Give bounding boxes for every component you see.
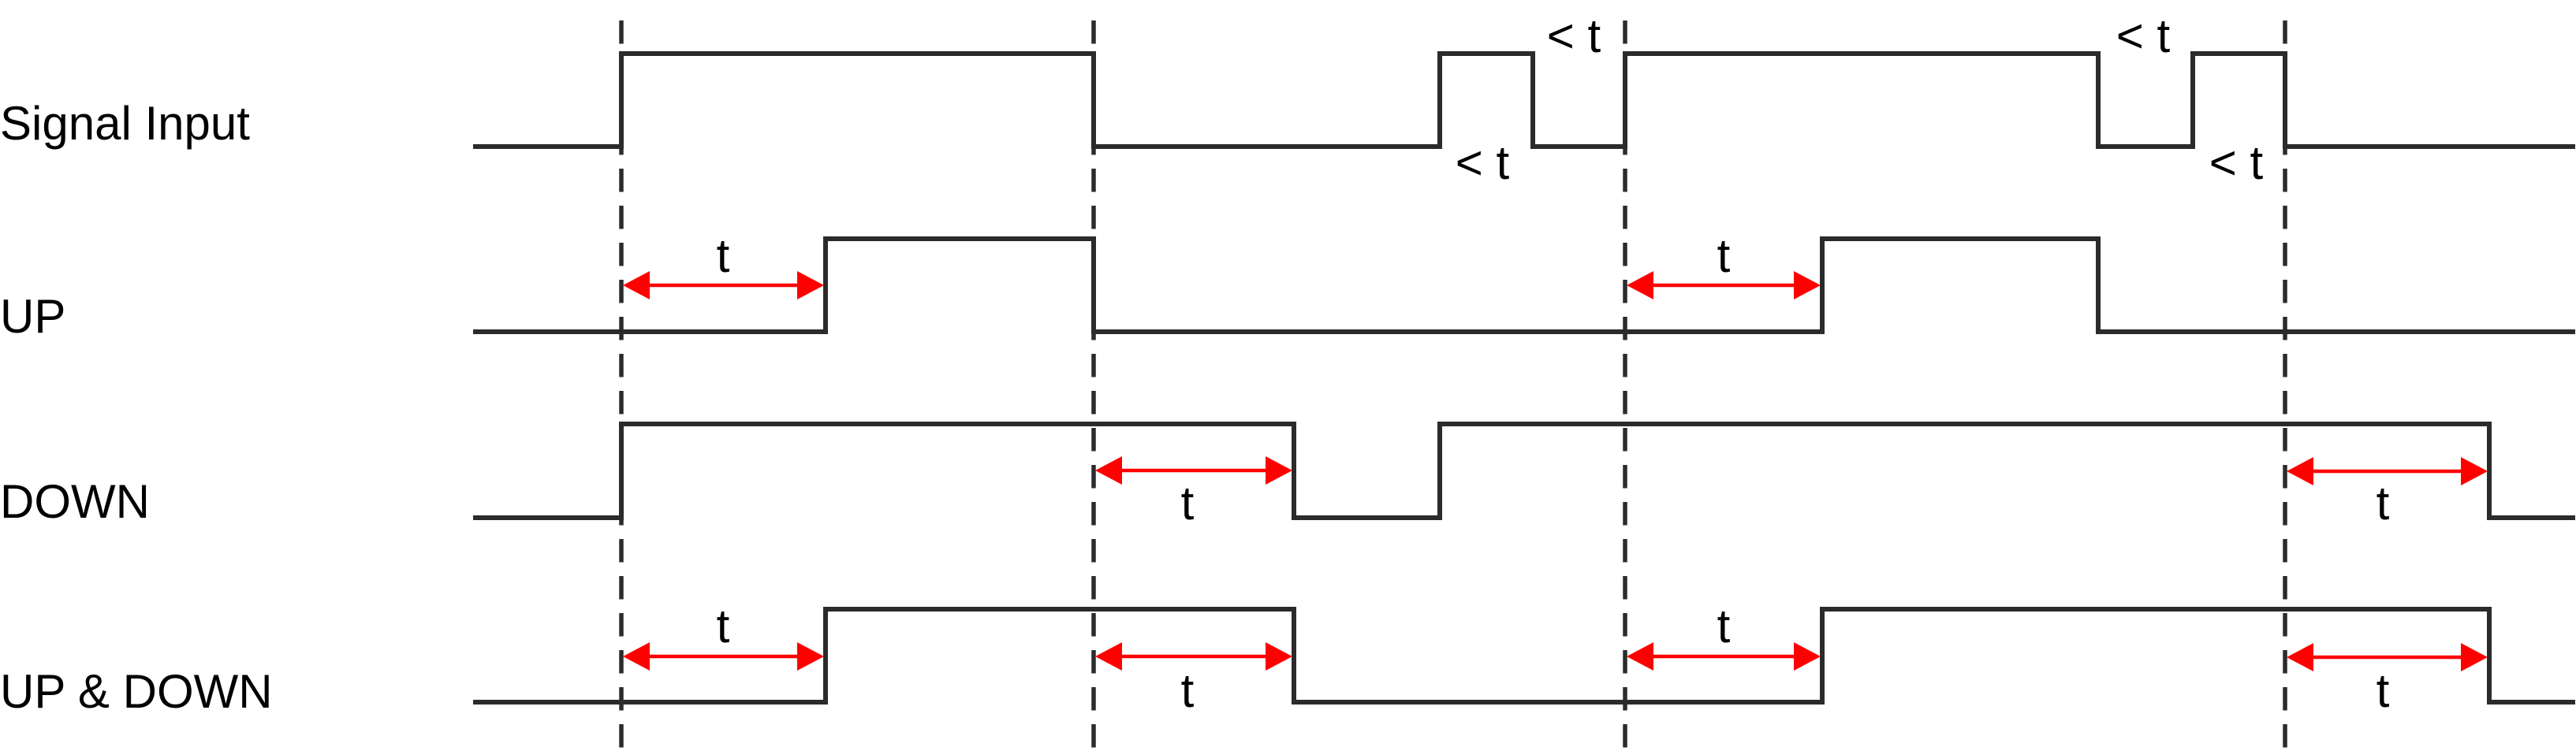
svg-text:< t: < t [1456,136,1510,189]
dashed vertical line 2 (first falling edge marker) [1091,20,1096,751]
svg-text:UP & DOWN: UP & DOWN [0,665,273,718]
red arrow t (DOWN row, right) [2287,457,2488,485]
svg-text:t: t [1717,229,1731,282]
dashed vertical line 4 (second falling edge marker) [2283,20,2287,751]
red arrow t (UP row, right) [1627,271,1821,299]
svg-text:< t: < t [1547,9,1601,62]
svg-text:t: t [1181,664,1195,717]
red arrow t (UP & DOWN row, middle) [1095,642,1292,671]
waveform UP & DOWN [473,609,2575,702]
red arrow t (UP & DOWN row, left) [623,642,824,671]
svg-text:t: t [1717,600,1731,652]
svg-text:DOWN: DOWN [0,475,150,528]
red arrow t (UP & DOWN row, right) [2287,643,2488,671]
waveform DOWN [473,424,2575,518]
svg-text:t: t [2377,477,2390,530]
svg-text:< t: < t [2209,136,2264,189]
svg-text:< t: < t [2116,9,2171,62]
red arrow t (UP & DOWN row, mid-right) [1627,642,1821,671]
red arrow t (DOWN row, middle) [1095,456,1292,485]
svg-text:t: t [2377,664,2390,717]
red arrow t (UP row, left) [623,271,824,299]
waveform Signal Input [473,54,2575,147]
dashed vertical line 1 (first rising edge marker) [619,20,624,751]
svg-text:Signal Input: Signal Input [0,97,250,150]
svg-text:UP: UP [0,290,65,343]
dashed vertical line 3 (second rising edge marker) [1623,20,1627,751]
svg-text:t: t [1181,477,1195,530]
svg-text:t: t [717,600,730,652]
waveform UP [473,239,2575,332]
svg-text:t: t [717,229,730,282]
